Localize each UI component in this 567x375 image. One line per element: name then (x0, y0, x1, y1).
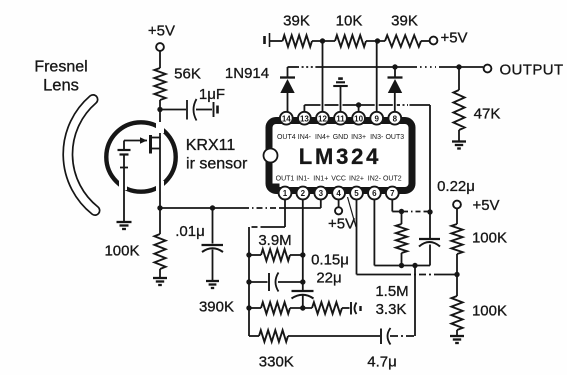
svg-text:+5V: +5V (440, 30, 467, 47)
svg-text:IN1-: IN1- (296, 176, 310, 183)
svg-text:1: 1 (283, 189, 288, 198)
svg-text:OUT2: OUT2 (383, 176, 402, 183)
svg-text:OUT4: OUT4 (277, 134, 296, 141)
svg-text:GND: GND (333, 134, 349, 141)
svg-text:100K: 100K (472, 303, 507, 320)
svg-text:6: 6 (372, 189, 377, 198)
svg-text:47K: 47K (474, 106, 501, 123)
svg-text:39K: 39K (391, 13, 418, 30)
svg-text:2: 2 (301, 189, 306, 198)
svg-text:9: 9 (374, 114, 379, 123)
svg-text:7: 7 (390, 189, 395, 198)
svg-text:3.3K: 3.3K (376, 301, 407, 318)
svg-text:5: 5 (354, 189, 359, 198)
svg-text:Lens: Lens (43, 77, 79, 95)
svg-text:390K: 390K (199, 299, 234, 316)
svg-text:13: 13 (300, 114, 309, 123)
svg-text:IN4-: IN4- (298, 134, 312, 141)
svg-text:+5V: +5V (472, 197, 499, 214)
svg-text:OUTPUT: OUTPUT (499, 62, 563, 79)
svg-text:0.15μ: 0.15μ (311, 252, 349, 269)
svg-text:IN2-: IN2- (368, 176, 382, 183)
svg-text:4: 4 (336, 189, 341, 198)
svg-text:100K: 100K (104, 243, 139, 260)
svg-text:OUT3: OUT3 (385, 134, 404, 141)
svg-text:8: 8 (393, 114, 398, 123)
svg-text:3: 3 (319, 189, 324, 198)
svg-text:56K: 56K (174, 66, 201, 83)
svg-text:3.9M: 3.9M (258, 232, 291, 249)
svg-text:ir sensor: ir sensor (186, 156, 248, 173)
svg-text:1μF: 1μF (199, 86, 225, 103)
svg-text:+5V: +5V (328, 216, 355, 233)
svg-text:OUT1: OUT1 (276, 176, 295, 183)
svg-text:IN3-: IN3- (370, 134, 384, 141)
svg-text:IN4+: IN4+ (315, 134, 330, 141)
svg-text:1N914: 1N914 (225, 65, 269, 82)
svg-text:0.22μ: 0.22μ (437, 178, 475, 195)
svg-text:VCC: VCC (331, 176, 346, 183)
svg-text:Fresnel: Fresnel (34, 59, 87, 76)
svg-text:.01μ: .01μ (175, 223, 205, 240)
svg-text:39K: 39K (283, 13, 310, 30)
svg-text:LM324: LM324 (299, 144, 381, 169)
svg-text:22μ: 22μ (316, 270, 341, 287)
svg-text:IN1+: IN1+ (313, 176, 328, 183)
svg-text:IN3+: IN3+ (351, 134, 366, 141)
svg-text:12: 12 (318, 114, 327, 123)
svg-text:4.7μ: 4.7μ (367, 354, 397, 371)
svg-text:330K: 330K (259, 354, 294, 371)
svg-text:100K: 100K (472, 230, 507, 247)
svg-text:14: 14 (282, 114, 291, 123)
svg-text:10K: 10K (336, 13, 363, 30)
svg-text:IN2+: IN2+ (349, 176, 364, 183)
svg-text:KRX11: KRX11 (186, 137, 236, 154)
svg-text:11: 11 (336, 114, 345, 123)
svg-text:+5V: +5V (148, 23, 175, 40)
svg-text:1.5M: 1.5M (375, 283, 408, 300)
svg-text:10: 10 (354, 114, 363, 123)
